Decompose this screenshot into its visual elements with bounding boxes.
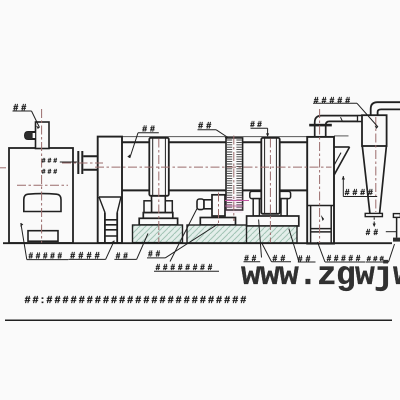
- svg-text:#####: #####: [29, 252, 65, 261]
- svg-text:#####: #####: [314, 95, 353, 105]
- svg-text:##: ##: [250, 120, 264, 129]
- svg-text:##: ##: [13, 102, 29, 112]
- svg-text:www.zgwjw: www.zgwjw: [241, 257, 400, 294]
- svg-text:####: ####: [345, 187, 376, 197]
- svg-text:##: ##: [198, 121, 214, 131]
- svg-text:##: ##: [148, 250, 163, 259]
- svg-text:##:#########################: ##:#########################: [25, 295, 249, 306]
- svg-text:##: ##: [366, 228, 382, 237]
- svg-text:###: ###: [42, 168, 59, 175]
- svg-text:##: ##: [116, 251, 131, 260]
- svg-text:########: ########: [156, 263, 216, 272]
- svg-text:##: ##: [142, 123, 157, 133]
- svg-text:###: ###: [42, 158, 59, 165]
- svg-text:####: ####: [70, 250, 103, 260]
